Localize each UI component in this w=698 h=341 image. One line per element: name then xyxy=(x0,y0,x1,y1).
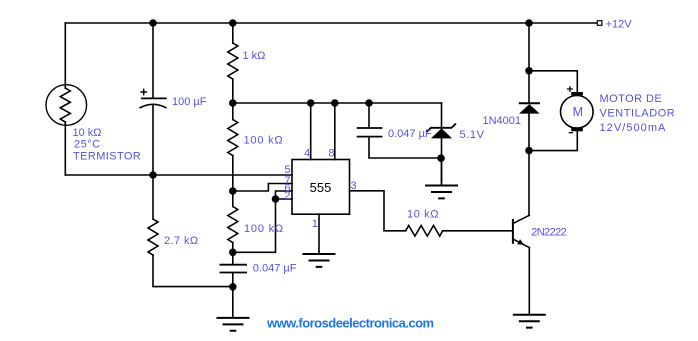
svg-text:TERMISTOR: TERMISTOR xyxy=(73,151,141,163)
svg-text:100 kΩ: 100 kΩ xyxy=(244,135,284,147)
svg-text:0.047 µF: 0.047 µF xyxy=(253,263,297,275)
svg-text:100 µF: 100 µF xyxy=(172,96,207,108)
svg-text:8: 8 xyxy=(328,147,334,159)
svg-text:12V/500mA: 12V/500mA xyxy=(600,122,667,134)
svg-text:2.7 kΩ: 2.7 kΩ xyxy=(164,235,198,247)
svg-text:MOTOR DE: MOTOR DE xyxy=(600,93,663,105)
svg-text:5.1V: 5.1V xyxy=(460,129,485,141)
svg-text:0.047 µF: 0.047 µF xyxy=(388,128,432,140)
svg-text:10 kΩ: 10 kΩ xyxy=(407,209,439,221)
svg-text:1 kΩ: 1 kΩ xyxy=(243,50,266,62)
svg-text:4: 4 xyxy=(304,147,310,159)
svg-text:555: 555 xyxy=(310,180,332,195)
svg-text:1N4001: 1N4001 xyxy=(483,115,522,127)
svg-text:M: M xyxy=(573,105,583,119)
svg-text:10 kΩ: 10 kΩ xyxy=(73,127,102,139)
svg-text:100 kΩ: 100 kΩ xyxy=(244,223,284,235)
svg-text:+12V: +12V xyxy=(606,19,633,31)
svg-text:25°C: 25°C xyxy=(74,139,101,151)
svg-text:3: 3 xyxy=(351,180,357,192)
svg-text:2N2222: 2N2222 xyxy=(531,227,566,239)
svg-text:www.forosdeelectronica.com: www.forosdeelectronica.com xyxy=(266,316,434,331)
svg-text:VENTILADOR: VENTILADOR xyxy=(600,108,676,120)
svg-text:1: 1 xyxy=(312,218,318,230)
svg-text:2: 2 xyxy=(284,190,290,202)
